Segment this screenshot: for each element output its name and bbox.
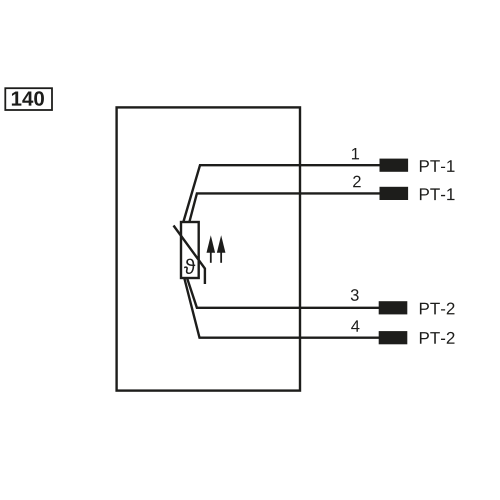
wire 2 xyxy=(190,193,381,221)
terminal 3 xyxy=(379,301,408,314)
thermistor diagonal stroke with bent foot xyxy=(174,226,205,285)
pin number 4 xyxy=(351,320,359,331)
wire 1 xyxy=(184,165,381,221)
heat arrow right xyxy=(217,235,226,262)
net label PT-2 (pin 3) xyxy=(420,303,455,315)
terminal 1 xyxy=(380,159,409,172)
thermistor body xyxy=(181,222,199,278)
terminal 2 xyxy=(380,187,409,200)
pin number 1 xyxy=(352,148,359,159)
heat arrow left xyxy=(207,235,216,262)
wire 3 xyxy=(187,279,379,308)
net label PT-2 (pin 4) xyxy=(420,332,455,344)
temperature symbol theta xyxy=(184,259,195,274)
pin number 2 xyxy=(353,176,361,188)
net label PT-1 (pin 2) xyxy=(420,188,455,200)
net label PT-1 (pin 1) xyxy=(420,160,455,172)
wire 4 xyxy=(184,279,379,338)
enclosure box xyxy=(117,107,300,390)
figure number label 140 xyxy=(5,88,52,110)
terminal 4 xyxy=(379,331,408,344)
pin number 3 xyxy=(351,289,359,301)
